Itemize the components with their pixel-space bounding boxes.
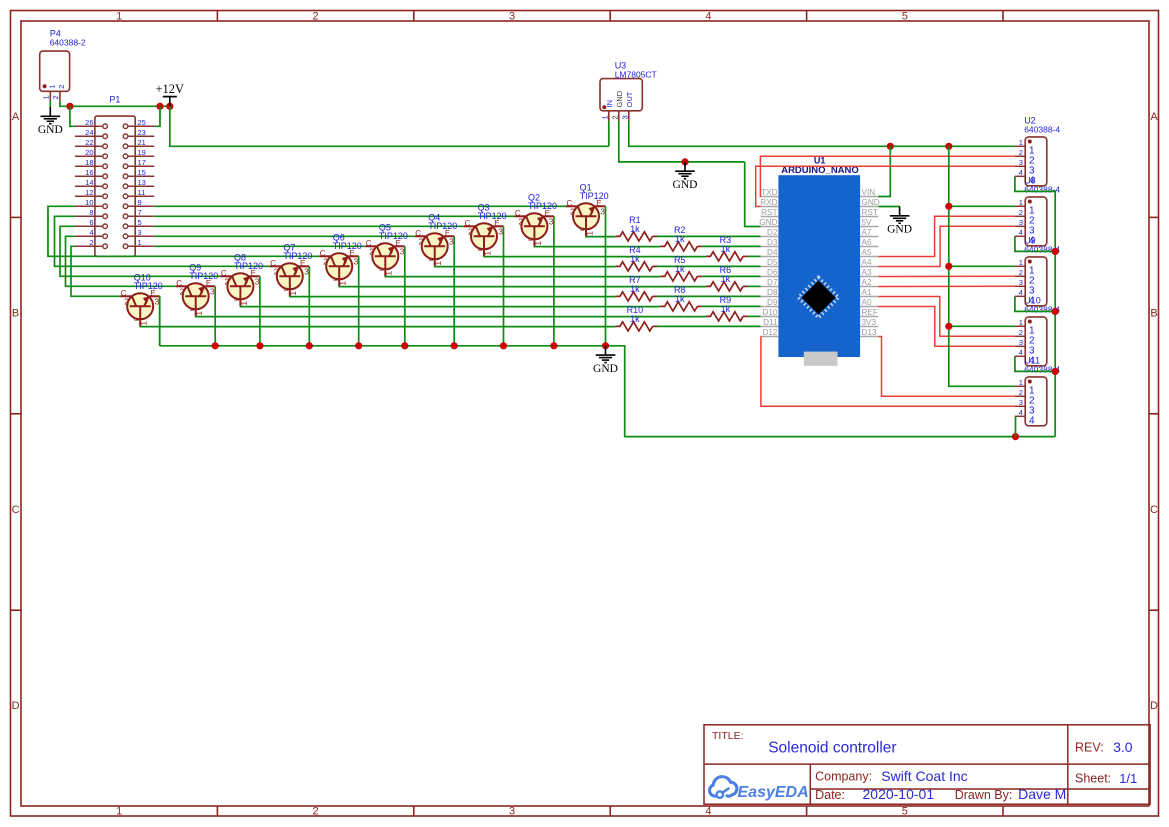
svg-text:B: B <box>429 257 435 261</box>
svg-text:1: 1 <box>42 95 51 99</box>
svg-text:D5: D5 <box>767 258 778 267</box>
svg-text:RST: RST <box>761 208 777 217</box>
junction <box>681 158 688 165</box>
junction <box>212 342 219 349</box>
wire Q4 base to R4 <box>435 265 616 267</box>
wire R9 to U1 D10 <box>748 315 761 317</box>
junction <box>451 342 458 349</box>
svg-text:2: 2 <box>468 226 473 236</box>
ground under P4 <box>41 107 61 124</box>
junction <box>500 342 507 349</box>
connector P4 <box>40 51 70 101</box>
svg-text:1: 1 <box>116 806 122 818</box>
resistor R7 1k <box>615 292 652 301</box>
U3 pin names IN GND OUT <box>605 90 634 107</box>
svg-text:10: 10 <box>85 198 93 207</box>
svg-text:D7: D7 <box>767 278 778 287</box>
wire Q6 emitter to GND bus <box>358 256 360 346</box>
U9 labels <box>1024 236 1060 255</box>
svg-text:A4: A4 <box>862 258 872 267</box>
svg-text:Swift Coat Inc: Swift Coat Inc <box>881 768 967 784</box>
svg-text:3: 3 <box>304 266 309 276</box>
svg-text:1k: 1k <box>630 314 640 324</box>
svg-text:1: 1 <box>600 115 609 119</box>
wire Q10 emitter to GND bus <box>159 296 161 346</box>
svg-text:2: 2 <box>1019 268 1023 277</box>
svg-text:640388-4: 640388-4 <box>1024 125 1060 135</box>
svg-text:5V: 5V <box>862 218 873 227</box>
transistor Q4 TIP120 <box>415 229 455 266</box>
svg-text:2: 2 <box>57 85 66 89</box>
svg-text:2: 2 <box>1019 328 1023 337</box>
title block <box>704 725 1150 804</box>
Q2 labels <box>528 192 557 211</box>
svg-text:19: 19 <box>138 148 146 157</box>
connector U11 640388-4 <box>1015 377 1047 426</box>
svg-text:A7: A7 <box>862 228 872 237</box>
wire U9 pin4 chain <box>1015 296 1055 311</box>
svg-text:TIP120: TIP120 <box>379 231 408 241</box>
wire D13 to U11 pin2 <box>878 337 1015 397</box>
wire R1 to U1 D2 <box>657 235 761 237</box>
svg-text:8: 8 <box>89 208 93 217</box>
junction <box>156 103 163 110</box>
svg-text:23: 23 <box>138 128 146 137</box>
wire Q10 emitter drop <box>159 296 161 346</box>
junction <box>355 342 362 349</box>
svg-text:D8: D8 <box>767 288 778 297</box>
junction <box>1052 248 1059 255</box>
svg-text:3: 3 <box>549 216 554 226</box>
svg-text:24: 24 <box>85 128 93 137</box>
svg-text:17: 17 <box>138 158 146 167</box>
svg-text:12: 12 <box>85 188 93 197</box>
ground right of U1 <box>890 207 910 224</box>
svg-text:TIP120: TIP120 <box>580 191 609 201</box>
svg-text:3: 3 <box>354 256 359 266</box>
U11 pin numbers <box>1019 378 1035 427</box>
svg-text:A: A <box>12 111 20 123</box>
svg-text:LM7805CT: LM7805CT <box>615 70 657 80</box>
svg-text:2: 2 <box>51 95 60 99</box>
junction <box>602 342 609 349</box>
U2 labels <box>1024 116 1060 135</box>
wire R8 to U1 D9 <box>702 305 761 307</box>
svg-text:6: 6 <box>89 218 93 227</box>
wire D12 to U11 pin3 <box>761 337 1015 407</box>
Q6 labels <box>333 232 362 251</box>
svg-text:2020-10-01: 2020-10-01 <box>863 786 935 802</box>
svg-text:TIP120: TIP120 <box>189 271 218 281</box>
svg-text:D11: D11 <box>763 318 778 327</box>
svg-text:Date:: Date: <box>815 788 845 802</box>
R8 labels <box>674 285 686 304</box>
R7 labels <box>629 275 641 294</box>
svg-text:3: 3 <box>509 806 515 818</box>
svg-text:U1: U1 <box>814 156 826 166</box>
wire R4 to U1 D5 <box>657 265 761 267</box>
transistor Q6 TIP120 <box>319 249 359 287</box>
svg-text:1k: 1k <box>675 264 685 274</box>
wire Q6 base to R6 <box>339 285 706 287</box>
svg-text:11: 11 <box>138 188 146 197</box>
P4 pin names 1 2 <box>47 85 66 89</box>
junction <box>945 323 952 330</box>
svg-text:2: 2 <box>180 286 185 296</box>
transistor Q3 TIP120 <box>464 219 504 256</box>
svg-text:1: 1 <box>47 85 56 89</box>
resistor R2 1k <box>660 242 697 251</box>
junction <box>887 143 894 150</box>
wire +12V to U3 IN <box>170 106 609 146</box>
svg-text:D12: D12 <box>762 328 777 337</box>
R2 labels <box>674 225 686 244</box>
resistor R4 1k <box>615 262 652 271</box>
svg-text:1: 1 <box>116 10 122 22</box>
svg-text:A3: A3 <box>862 268 872 277</box>
svg-text:D3: D3 <box>767 238 778 247</box>
U9 pin numbers <box>1019 258 1035 307</box>
svg-text:GND: GND <box>593 363 618 375</box>
wire P1 pin5 to Q3 collector <box>154 225 464 227</box>
R4 labels <box>629 245 641 264</box>
wire R6 to U1 D7 <box>748 285 761 287</box>
svg-text:1k: 1k <box>675 234 685 244</box>
wire 5V feed to pin1 <box>949 205 1015 207</box>
svg-text:REF: REF <box>862 308 878 317</box>
Q9 labels <box>189 262 218 281</box>
wire A5 to U8 pin2 <box>878 216 1015 256</box>
svg-text:2: 2 <box>610 115 619 119</box>
wire P1 pin3 to Q4 collector <box>154 235 414 237</box>
svg-text:Company:: Company: <box>815 770 872 784</box>
+12V power flag <box>156 82 185 107</box>
svg-text:3: 3 <box>210 286 215 296</box>
svg-text:B: B <box>529 237 535 241</box>
wire to P1 pin26 <box>70 106 75 126</box>
svg-text:2: 2 <box>1019 148 1023 157</box>
svg-text:2: 2 <box>224 276 229 286</box>
U1 right pins <box>860 188 880 337</box>
svg-text:2: 2 <box>570 206 575 216</box>
wire U11 pin4 down <box>1014 416 1017 436</box>
svg-text:3: 3 <box>498 226 503 236</box>
svg-text:B: B <box>235 297 241 301</box>
wire Q7 base to R7 <box>290 295 616 297</box>
wire P1 pin9 to Q1 collector <box>154 205 566 207</box>
svg-text:GND: GND <box>887 224 912 236</box>
U1 left pins <box>759 188 778 337</box>
connector U2 640388-4 <box>1015 137 1047 186</box>
svg-text:D6: D6 <box>767 268 778 277</box>
svg-text:B: B <box>380 267 386 271</box>
wire R5 to U1 D6 <box>702 275 761 277</box>
svg-text:A0: A0 <box>862 298 872 307</box>
wire R3 to U1 D4 <box>748 255 761 257</box>
Q1 labels <box>580 182 609 201</box>
wire P4 pin1 to GND <box>49 101 51 107</box>
R5 labels <box>674 255 686 274</box>
svg-text:TIP120: TIP120 <box>478 211 507 221</box>
svg-text:VIN: VIN <box>862 188 876 197</box>
wire Q8 base to R8 <box>240 305 660 307</box>
svg-text:D: D <box>1150 700 1158 712</box>
junction <box>256 342 263 349</box>
svg-text:5: 5 <box>902 10 908 22</box>
svg-text:TXD: TXD <box>761 188 777 197</box>
svg-text:B: B <box>333 277 339 281</box>
U1 labels <box>781 156 859 177</box>
R9 labels <box>720 295 732 314</box>
svg-text:RXD: RXD <box>760 198 777 207</box>
P4 pin numbers 1 2 <box>42 95 61 99</box>
wire U1 GND right <box>878 206 899 208</box>
transistor Q8 TIP120 <box>220 269 260 307</box>
svg-text:13: 13 <box>138 178 146 187</box>
wire Q3 base to R3 <box>484 255 706 257</box>
wire Q1 emitter to GND bus <box>605 206 607 345</box>
svg-text:2: 2 <box>419 236 424 246</box>
wire VIN riser <box>878 146 890 196</box>
ground under GND bus <box>596 346 616 363</box>
svg-text:3: 3 <box>1019 338 1023 347</box>
svg-text:GND: GND <box>615 90 624 107</box>
resistor R5 1k <box>660 272 697 281</box>
wire Q3 emitter to GND bus <box>503 226 505 345</box>
junction <box>401 342 408 349</box>
U2 pin numbers <box>1019 138 1035 187</box>
junction <box>1052 308 1059 315</box>
svg-text:4: 4 <box>1019 168 1023 177</box>
resistor R3 1k <box>706 252 743 261</box>
svg-text:B: B <box>190 307 196 311</box>
svg-text:3: 3 <box>620 115 629 119</box>
wire Q9 emitter to GND bus <box>214 286 216 346</box>
resistor R9 1k <box>706 312 743 321</box>
svg-text:3V3: 3V3 <box>862 318 877 327</box>
transistor Q1 TIP120 <box>566 199 606 237</box>
svg-text:2: 2 <box>274 266 279 276</box>
wire P1 pin4 to Q9 collector <box>66 236 176 286</box>
junction <box>1012 433 1019 440</box>
svg-text:18: 18 <box>85 158 93 167</box>
svg-text:7: 7 <box>138 208 142 217</box>
svg-text:1: 1 <box>1019 138 1023 147</box>
wire 5V feed to pin1 <box>949 325 1015 327</box>
svg-text:A6: A6 <box>862 238 872 247</box>
svg-text:Sheet:: Sheet: <box>1075 772 1111 786</box>
ground near U3 <box>675 162 695 179</box>
svg-text:2: 2 <box>323 256 328 266</box>
svg-text:2: 2 <box>313 10 319 22</box>
svg-text:TIP120: TIP120 <box>528 201 557 211</box>
svg-text:640388-2: 640388-2 <box>50 38 86 48</box>
wire Q7 emitter to GND bus <box>308 266 310 346</box>
svg-text:B: B <box>580 227 586 231</box>
svg-text:D13: D13 <box>862 328 877 337</box>
svg-text:21: 21 <box>138 138 146 147</box>
wire U3 IN down <box>608 121 610 146</box>
svg-text:2: 2 <box>1019 208 1023 217</box>
svg-text:22: 22 <box>85 138 93 147</box>
svg-text:D10: D10 <box>762 308 777 317</box>
svg-text:2: 2 <box>89 238 93 247</box>
svg-text:3.0: 3.0 <box>1113 739 1133 755</box>
svg-text:1: 1 <box>1019 198 1023 207</box>
svg-text:Drawn By:: Drawn By: <box>955 788 1013 802</box>
svg-text:GND: GND <box>38 124 63 136</box>
wire A2 to U9 pin3 <box>878 285 1015 287</box>
wire P1 pin6 to Q8 collector <box>60 226 220 276</box>
Q3 labels <box>478 202 507 221</box>
svg-text:1k: 1k <box>721 274 731 284</box>
transistor Q5 TIP120 <box>365 239 405 277</box>
svg-text:2: 2 <box>518 216 523 226</box>
svg-text:4: 4 <box>705 806 711 818</box>
resistor R8 1k <box>660 302 697 311</box>
svg-text:1: 1 <box>1019 318 1023 327</box>
svg-text:4: 4 <box>1019 348 1023 357</box>
svg-text:2: 2 <box>1019 388 1023 397</box>
svg-text:D2: D2 <box>767 228 778 237</box>
svg-text:3: 3 <box>400 246 405 256</box>
junction <box>945 143 952 150</box>
svg-text:C: C <box>12 504 20 516</box>
wire GND bus and return <box>160 346 1055 437</box>
svg-text:4: 4 <box>1019 288 1023 297</box>
wire 5V feed to pin1 <box>949 265 1015 267</box>
wire P1 pin1 to Q5 collector <box>154 245 365 247</box>
svg-text:TIP120: TIP120 <box>333 241 362 251</box>
voltage regulator U3 LM7805CT <box>600 79 642 121</box>
Q4 labels <box>428 212 457 231</box>
svg-text:GND: GND <box>862 198 880 207</box>
svg-text:TIP120: TIP120 <box>428 221 457 231</box>
transistor Q7 TIP120 <box>270 259 310 297</box>
wire P4 pin2 +12V rail top <box>60 101 170 106</box>
wire Q10 base to R10 <box>140 325 615 327</box>
svg-text:2: 2 <box>124 296 129 306</box>
svg-text:TIP120: TIP120 <box>134 281 163 291</box>
R1 labels <box>629 215 641 234</box>
wire P1 pin10 to Q6 collector <box>48 206 319 256</box>
R10 labels <box>627 305 644 324</box>
svg-text:RST: RST <box>862 208 878 217</box>
title block texts <box>712 730 1137 802</box>
svg-text:B: B <box>134 317 140 321</box>
svg-text:OUT: OUT <box>625 91 634 107</box>
Q7 labels <box>283 242 312 261</box>
wire U8 pin4 chain <box>1015 236 1055 251</box>
svg-text:B: B <box>478 247 484 251</box>
svg-text:1: 1 <box>138 238 142 247</box>
svg-text:2: 2 <box>313 806 319 818</box>
wire R7 to U1 D8 <box>657 295 761 297</box>
svg-text:3: 3 <box>1019 158 1023 167</box>
connector P1 <box>75 116 154 256</box>
wire U3 OUT 5V rail <box>629 121 1015 146</box>
U11 labels <box>1024 356 1060 375</box>
svg-text:1k: 1k <box>630 224 640 234</box>
svg-text:2: 2 <box>369 246 374 256</box>
resistor R1 1k <box>615 232 652 241</box>
svg-text:3: 3 <box>509 10 515 22</box>
svg-text:1k: 1k <box>721 244 731 254</box>
svg-text:A5: A5 <box>862 248 872 257</box>
svg-text:B: B <box>284 287 290 291</box>
wire 5V feed to U11 pin1 <box>949 146 1015 386</box>
svg-text:P1: P1 <box>109 95 120 105</box>
svg-text:D4: D4 <box>767 248 778 257</box>
svg-text:1k: 1k <box>721 304 731 314</box>
junction <box>66 103 73 110</box>
svg-text:3: 3 <box>1019 278 1023 287</box>
svg-text:1k: 1k <box>630 284 640 294</box>
svg-text:EasyEDA: EasyEDA <box>738 784 809 801</box>
wire to U1 GND left <box>745 162 761 227</box>
U10 labels <box>1024 296 1060 315</box>
wire Q2 base to R2 <box>534 245 660 247</box>
R3 labels <box>720 235 732 254</box>
svg-text:3: 3 <box>255 276 260 286</box>
wire Q2 emitter to GND bus <box>553 216 555 345</box>
wire A4 to U8 pin3 <box>878 226 1015 266</box>
junction <box>1052 368 1059 375</box>
P1 pin numbers <box>85 118 146 247</box>
svg-text:4: 4 <box>1019 408 1023 417</box>
svg-text:1k: 1k <box>630 254 640 264</box>
svg-text:5: 5 <box>902 806 908 818</box>
wire P1 pin8 to Q7 collector <box>55 216 270 266</box>
svg-text:9: 9 <box>138 198 142 207</box>
svg-text:A: A <box>1150 111 1158 123</box>
svg-text:15: 15 <box>138 168 146 177</box>
U3 pin numbers 1 2 3 <box>600 115 629 119</box>
svg-text:TITLE:: TITLE: <box>712 730 744 742</box>
connector U9 640388-4 <box>1015 257 1047 306</box>
wire Q5 emitter to GND bus <box>404 246 406 345</box>
svg-text:IN: IN <box>605 100 614 108</box>
wire RXD to U2 pin3 <box>756 166 1015 206</box>
wire P1 pin7 to Q2 collector <box>154 215 514 217</box>
wire U2 pin4 chain <box>1015 176 1055 436</box>
svg-text:4: 4 <box>1019 228 1023 237</box>
junction <box>306 342 313 349</box>
svg-text:20: 20 <box>85 148 93 157</box>
svg-text:14: 14 <box>85 178 93 187</box>
wire U10 pin4 chain <box>1015 356 1055 371</box>
junction <box>166 103 173 110</box>
svg-text:5: 5 <box>138 218 142 227</box>
wire Q8 emitter to GND bus <box>259 276 261 346</box>
wire P1 pin2 to Q10 collector <box>71 246 120 296</box>
wire A0 to U10 pin3 <box>878 307 1015 347</box>
svg-text:1: 1 <box>1019 378 1023 387</box>
svg-text:D: D <box>12 700 20 712</box>
Q8 labels <box>234 252 263 271</box>
wire Q4 emitter to GND bus <box>453 236 455 345</box>
wire A3 to U9 pin2 <box>878 275 1015 277</box>
svg-text:D9: D9 <box>767 298 778 307</box>
resistor R6 1k <box>706 282 743 291</box>
svg-text:1k: 1k <box>675 294 685 304</box>
svg-text:Solenoid controller: Solenoid controller <box>768 740 896 757</box>
wire TXD to U2 pin2 <box>760 156 1015 196</box>
svg-text:3: 3 <box>138 228 142 237</box>
connector U10 640388-4 <box>1015 317 1047 366</box>
svg-text:TIP120: TIP120 <box>234 261 263 271</box>
svg-text:4: 4 <box>89 228 93 237</box>
